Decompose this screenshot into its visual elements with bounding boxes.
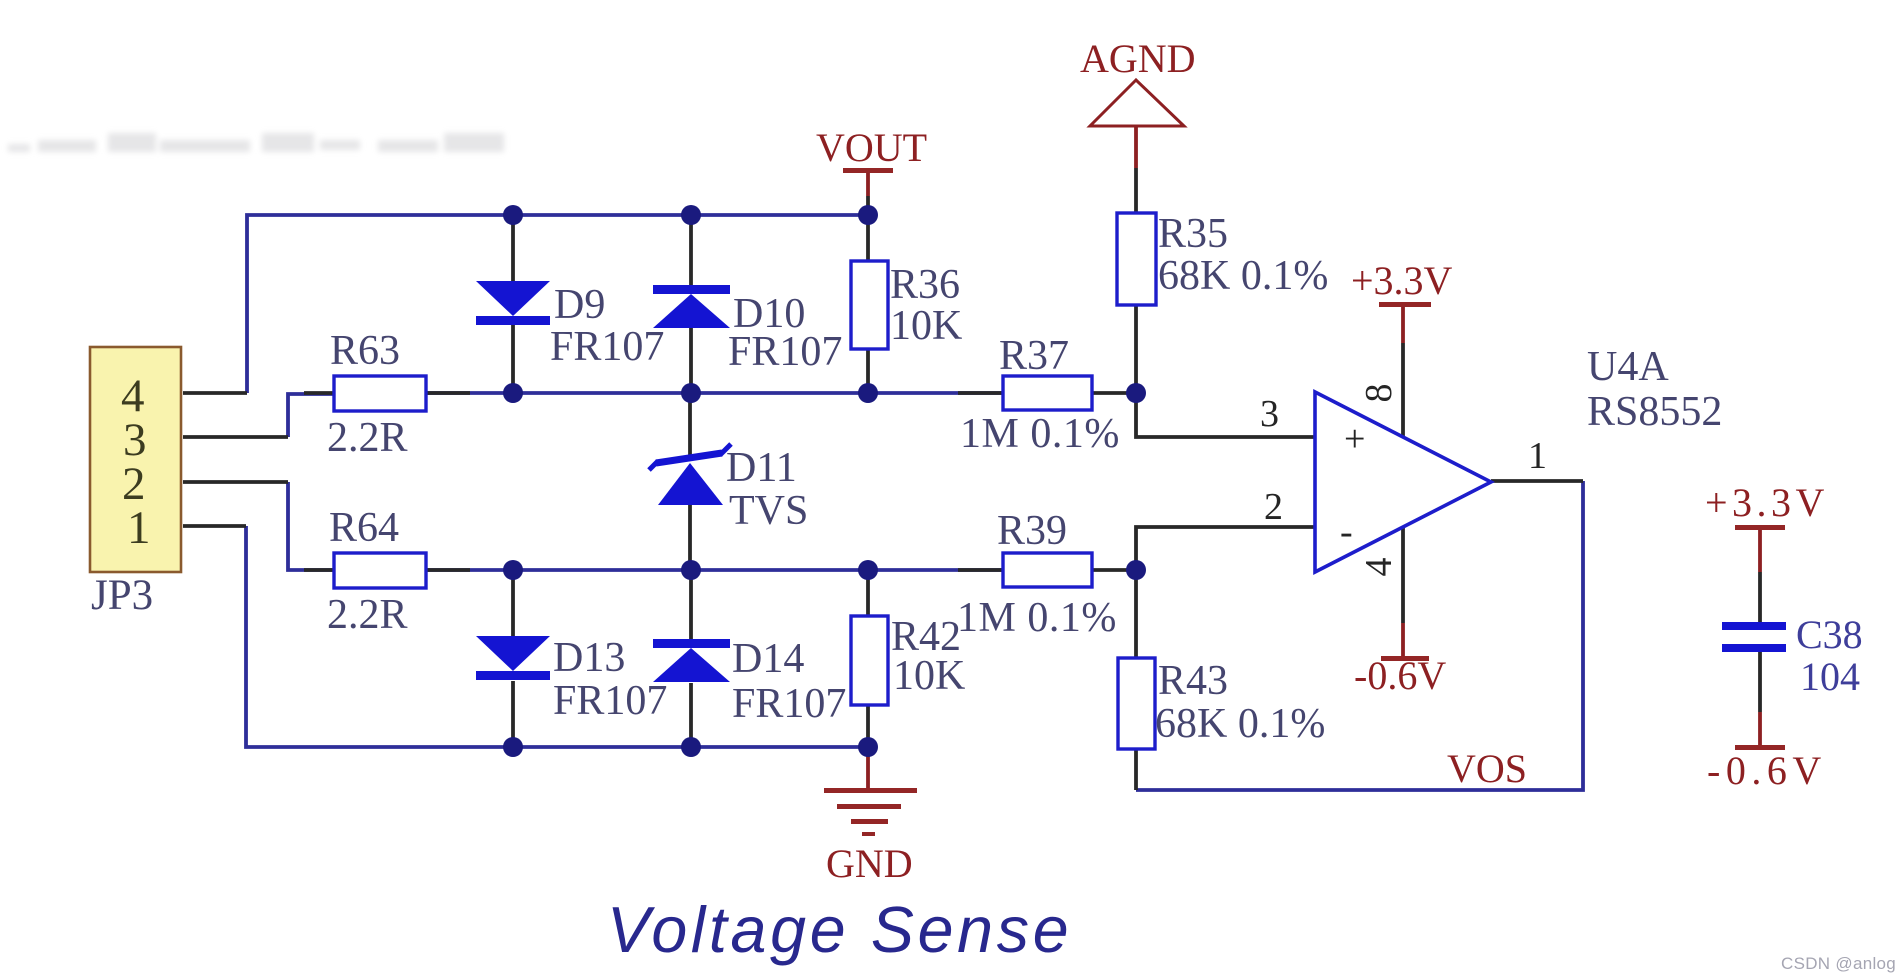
svg-text:1: 1 — [127, 502, 151, 554]
svg-text:R39: R39 — [997, 508, 1067, 554]
svg-text:D11: D11 — [726, 445, 797, 491]
svg-text:D14: D14 — [732, 636, 804, 682]
svg-text:4: 4 — [1358, 558, 1400, 577]
svg-text:GND: GND — [826, 841, 913, 886]
svg-text:2.2R: 2.2R — [327, 592, 408, 638]
svg-text:10K: 10K — [893, 653, 965, 699]
svg-text:1: 1 — [1528, 435, 1547, 477]
svg-text:+3.3V: +3.3V — [1705, 480, 1829, 525]
svg-text:TVS: TVS — [729, 488, 808, 534]
svg-text:Voltage Sense: Voltage Sense — [607, 894, 1072, 966]
svg-text:AGND: AGND — [1080, 36, 1196, 81]
svg-text:CSDN @anlog: CSDN @anlog — [1781, 954, 1896, 973]
svg-text:-0.6V: -0.6V — [1354, 653, 1446, 698]
svg-text:C38: C38 — [1796, 612, 1863, 657]
svg-text:D9: D9 — [554, 282, 605, 328]
svg-text:FR107: FR107 — [553, 678, 667, 724]
svg-text:D13: D13 — [553, 635, 625, 681]
svg-text:68K 0.1%: 68K 0.1% — [1155, 701, 1325, 747]
svg-text:U4A: U4A — [1587, 344, 1669, 390]
svg-text:VOS: VOS — [1447, 746, 1527, 791]
svg-text:2: 2 — [1264, 486, 1283, 528]
svg-text:-0.6V: -0.6V — [1707, 748, 1827, 793]
svg-text:2.2R: 2.2R — [327, 415, 408, 461]
svg-text:JP3: JP3 — [91, 572, 153, 619]
svg-text:104: 104 — [1800, 654, 1860, 699]
svg-text:FR107: FR107 — [550, 324, 664, 370]
svg-text:VOUT: VOUT — [816, 125, 927, 170]
svg-text:10K: 10K — [890, 303, 962, 349]
svg-text:68K 0.1%: 68K 0.1% — [1158, 253, 1328, 299]
svg-text:1M 0.1%: 1M 0.1% — [960, 411, 1120, 457]
svg-text:R63: R63 — [330, 328, 400, 374]
svg-text:FR107: FR107 — [728, 329, 842, 375]
svg-text:R64: R64 — [329, 505, 399, 551]
svg-text:R36: R36 — [890, 262, 960, 308]
svg-text:3: 3 — [1260, 393, 1279, 435]
svg-text:R37: R37 — [999, 333, 1069, 379]
svg-text:R35: R35 — [1158, 211, 1228, 257]
svg-text:FR107: FR107 — [732, 681, 846, 727]
svg-text:+: + — [1344, 418, 1365, 460]
svg-text:1M 0.1%: 1M 0.1% — [957, 595, 1117, 641]
svg-text:+3.3V: +3.3V — [1351, 258, 1453, 303]
svg-text:R43: R43 — [1158, 658, 1228, 704]
svg-text:8: 8 — [1358, 384, 1400, 403]
svg-text:RS8552: RS8552 — [1587, 389, 1722, 435]
svg-text:-: - — [1340, 511, 1353, 553]
